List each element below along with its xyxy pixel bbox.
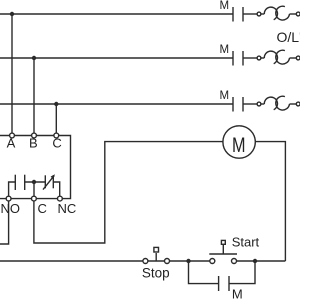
pushbutton Start stem	[222, 245, 224, 254]
wire OL2 right lead	[290, 57, 297, 59]
OL3 right terminal circle	[296, 102, 300, 106]
wire L1 tap to terminal A	[11, 14, 13, 133]
svg-text:Start: Start	[232, 235, 260, 250]
relay NO contact left bar	[14, 175, 16, 190]
OL3 left terminal circle	[257, 102, 261, 106]
relay NC contact arrowhead	[51, 174, 55, 179]
wire OL3 right lead	[290, 103, 297, 105]
relay NC contact lead out	[53, 182, 59, 196]
wire OL1 right lead	[290, 13, 297, 15]
contact M aux left bar	[218, 276, 220, 291]
wire NO contact to common	[25, 181, 46, 183]
wire OL3 lead	[261, 103, 264, 105]
relay NC contact right bar	[52, 175, 54, 188]
wire motor to right rail	[256, 142, 286, 261]
svg-text:NO: NO	[1, 201, 21, 216]
wire M3 to OL3	[243, 103, 257, 105]
pushbutton Start bar	[209, 253, 237, 255]
OL3 heater lower hook	[276, 96, 290, 110]
wire NO terminal drop	[0, 201, 9, 244]
contact M1 right bar	[242, 7, 244, 22]
wire common terminal stub	[33, 182, 35, 196]
svg-text:Stop: Stop	[142, 266, 170, 281]
contact M3 right bar	[242, 97, 244, 112]
OL1 heater lower hook	[276, 6, 290, 20]
node L3 tap junction	[54, 102, 58, 106]
OL1 right terminal circle	[296, 12, 300, 16]
wire M2 to OL2	[243, 57, 257, 59]
pushbutton Stop left circle	[143, 259, 148, 264]
wire L3 tap to terminal C	[55, 104, 57, 133]
svg-text:M: M	[220, 90, 230, 102]
pushbutton Stop stem	[155, 253, 157, 261]
wire control line left segment	[0, 260, 212, 262]
wire L2 horizontal	[0, 57, 233, 59]
OL3 heater upper hook	[264, 97, 277, 110]
relay box outline	[0, 136, 71, 199]
node branch right junction	[253, 259, 257, 263]
OL2 heater upper hook	[264, 51, 277, 64]
contact M1 left bar	[232, 7, 234, 22]
contact M2 right bar	[242, 51, 244, 66]
svg-text:M: M	[232, 287, 243, 300]
wire OL1 lead	[261, 13, 264, 15]
svg-text:M: M	[220, 0, 230, 12]
wire M1 to OL1	[243, 13, 257, 15]
pushbutton Start left circle	[210, 259, 215, 264]
relay internal NO contact lead	[9, 182, 16, 196]
OL1 heater upper hook	[264, 7, 277, 20]
node common junction	[32, 180, 36, 184]
terminal NO circle	[6, 196, 11, 201]
relay NC contact slash	[43, 176, 54, 190]
OL2 left terminal circle	[257, 56, 261, 60]
contact M aux right bar	[228, 276, 230, 291]
svg-text:C: C	[52, 136, 61, 151]
relay NC contact left bar	[44, 175, 46, 188]
terminal A circle	[10, 133, 15, 138]
motor M1 circle	[223, 126, 255, 158]
wire C terminal to motor	[34, 142, 223, 243]
node branch left junction	[186, 259, 190, 263]
wire L2 tap to terminal B	[33, 58, 35, 133]
contact M3 left bar	[232, 97, 234, 112]
svg-text:B: B	[29, 136, 38, 151]
svg-text:NC: NC	[58, 201, 77, 216]
relay NO contact right bar	[24, 175, 26, 190]
svg-text:M: M	[232, 134, 246, 157]
terminal B circle	[32, 133, 37, 138]
wire L3 horizontal	[0, 103, 233, 105]
wire seal-in branch right	[229, 261, 255, 284]
terminal NC circle	[58, 196, 63, 201]
wire control line right segment	[234, 260, 285, 262]
pushbutton Start right circle	[232, 259, 237, 264]
svg-text:C: C	[38, 201, 47, 216]
svg-text:A: A	[7, 136, 16, 151]
node L1 tap junction	[10, 12, 14, 16]
OL1 left terminal circle	[257, 12, 261, 16]
wire seal-in branch	[189, 261, 219, 284]
wire OL2 lead	[261, 57, 264, 59]
wire L1 horizontal	[0, 13, 233, 15]
svg-text:M: M	[220, 44, 230, 56]
terminal C-bottom circle	[32, 196, 37, 201]
contact M2 left bar	[232, 51, 234, 66]
terminal C circle	[54, 133, 59, 138]
pushbutton Start cap	[221, 240, 225, 244]
pushbutton Stop cap	[154, 247, 159, 252]
OL2 heater lower hook	[276, 50, 290, 64]
node L2 tap junction	[32, 56, 36, 60]
OL2 right terminal circle	[296, 56, 300, 60]
pushbutton Stop right circle	[165, 259, 170, 264]
svg-text:O/L's: O/L's	[277, 29, 301, 45]
